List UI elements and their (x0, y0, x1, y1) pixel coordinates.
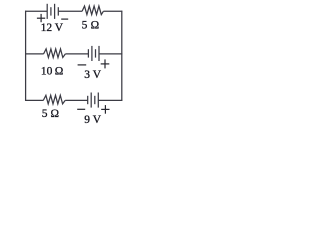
battery V1 12V plates (47, 4, 58, 19)
resistor R2 10 ohm zigzag (middle) (44, 49, 66, 58)
resistor R1 5 ohm zigzag (top) (82, 6, 103, 15)
wire: top rail middle segment (58, 10, 82, 12)
svg-text:9 V: 9 V (84, 114, 101, 126)
polarity sign - (V3 9V negative, left) (77, 108, 85, 110)
wire: bottom rail right segment (98, 99, 122, 101)
svg-text:3 V: 3 V (84, 69, 101, 81)
polarity sign + (V3 9V positive, right) (101, 105, 109, 114)
polarity sign + (V1 12V positive, left) (37, 14, 45, 22)
polarity sign - (V2 3V negative, left) (78, 64, 87, 66)
wire: top rail right segment (103, 10, 122, 12)
svg-text:Ω: Ω (51, 108, 60, 120)
wire: bottom rail center segment (65, 99, 88, 101)
svg-text:5: 5 (82, 19, 88, 31)
polarity sign + (V2 3V positive, right) (101, 59, 110, 68)
wire: middle rail center segment (65, 53, 88, 55)
wire: middle rail left segment (25, 53, 44, 55)
polarity sign - (V1 12V negative, right) (61, 18, 68, 20)
svg-text:Ω: Ω (91, 19, 100, 31)
resistor R3 5 ohm zigzag (bottom) (43, 95, 65, 104)
wire: middle rail right segment (99, 53, 122, 55)
svg-text:5: 5 (42, 108, 48, 120)
wire: bottom rail left segment (25, 99, 43, 101)
battery V3 9V plates (88, 93, 99, 108)
wire: right edge of loop (121, 11, 123, 101)
svg-text:12 V: 12 V (41, 22, 64, 34)
battery V2 3V plates (88, 46, 99, 61)
svg-text:10: 10 (41, 66, 53, 78)
wire: top rail left segment (25, 10, 47, 12)
svg-text:Ω: Ω (55, 66, 64, 78)
wire: left edge of loop (25, 11, 27, 101)
